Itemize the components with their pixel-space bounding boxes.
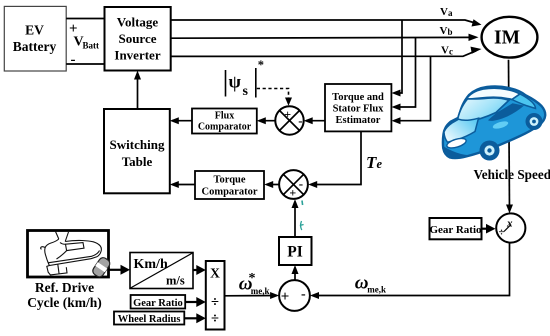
- svg-text:me,k: me,k: [251, 286, 270, 296]
- wire flux comparator to switching table: [170, 117, 192, 124]
- wire switching table to inverter: [134, 71, 141, 110]
- block unit converter Km/h to m/s: [130, 253, 193, 289]
- wire Te estimator to torque summing: [308, 131, 361, 188]
- wire unit converter to product: [193, 265, 206, 275]
- svg-text:s: s: [243, 84, 249, 99]
- wire torque summing to torque comparator: [264, 181, 279, 188]
- block product X divide divide: [206, 261, 225, 330]
- svg-text:Flux: Flux: [215, 111, 234, 122]
- label + VBatt -: [69, 21, 99, 68]
- svg-text:÷: ÷: [499, 227, 505, 239]
- block pedal Ref Drive Cycle: [28, 231, 109, 278]
- block PI: [279, 237, 312, 265]
- svg-text:*: *: [249, 271, 256, 286]
- block Gear Ratio right: [429, 218, 482, 239]
- svg-text:Ref. Drive: Ref. Drive: [35, 280, 94, 295]
- wire feedback omega to speed summing: [310, 243, 510, 299]
- svg-text:Switching: Switching: [110, 137, 165, 152]
- block Flux Comparator: [192, 109, 257, 134]
- wire PI to torque summing: [292, 199, 299, 237]
- wire dashed flux ref to summing: [257, 89, 292, 106]
- label Te: [366, 153, 383, 172]
- label omega feedback: [355, 272, 386, 294]
- wire flux summing to flux comparator: [257, 117, 276, 124]
- wire IM to divider circle: [506, 60, 513, 214]
- svg-text:Gear Ratio: Gear Ratio: [133, 298, 183, 309]
- svg-text:IM: IM: [494, 28, 520, 49]
- svg-text:+: +: [289, 186, 296, 200]
- svg-text:Comparator: Comparator: [198, 122, 252, 133]
- svg-text:Comparator: Comparator: [202, 187, 258, 198]
- svg-text:-: -: [298, 113, 302, 128]
- wire phase Vb: [171, 34, 479, 41]
- block EV Battery: [4, 6, 66, 71]
- wire gear ratio right to divider: [482, 224, 496, 234]
- summing junction speed: [279, 280, 310, 311]
- wire speed summing to PI: [292, 265, 299, 280]
- svg-text:X: X: [210, 266, 220, 281]
- svg-text:Estimator: Estimator: [336, 115, 381, 126]
- divider junction N: [496, 213, 525, 242]
- wire battery-inverter bottom: [66, 63, 104, 65]
- svg-text:Va: Va: [440, 6, 453, 18]
- drawing shoe on pedal: [41, 232, 102, 275]
- svg-text:Stator Flux: Stator Flux: [333, 104, 385, 115]
- motor IM: [482, 17, 538, 58]
- svg-text:m/s: m/s: [166, 274, 185, 288]
- block Switching Table: [104, 109, 170, 193]
- wire battery-inverter top: [66, 18, 104, 20]
- svg-text:Vehicle Speed: Vehicle Speed: [474, 167, 550, 182]
- svg-text:-: -: [299, 176, 303, 191]
- block Gear Ratio left: [131, 295, 186, 309]
- label Ref Drive Cycle: [27, 280, 102, 310]
- label omega ref: [239, 271, 270, 296]
- svg-text:-: -: [301, 287, 306, 302]
- wire tap Vc to estimator: [392, 56, 431, 124]
- svg-text:Gear Ratio: Gear Ratio: [429, 224, 482, 236]
- drawing pedal pad: [91, 256, 111, 279]
- wire phase Vc: [171, 47, 482, 57]
- svg-text:Table: Table: [122, 154, 153, 169]
- svg-text:Wheel Radius: Wheel Radius: [118, 314, 181, 325]
- wire gear ratio to product: [185, 297, 206, 307]
- wire phase Va: [171, 19, 482, 26]
- drawing car: [443, 87, 545, 161]
- svg-text:e: e: [377, 157, 383, 171]
- wire tap Vb to estimator: [392, 38, 416, 111]
- svg-text:PI: PI: [287, 244, 303, 261]
- label Vehicle Speed: [474, 167, 550, 182]
- wire product to speed summing: [225, 292, 280, 299]
- svg-text:Cycle (km/h): Cycle (km/h): [27, 295, 102, 310]
- wire wheel radius to product: [184, 313, 206, 323]
- svg-text:Inverter: Inverter: [114, 48, 160, 63]
- svg-text:+: +: [281, 289, 290, 305]
- svg-text:Torque and: Torque and: [332, 92, 384, 103]
- block Voltage Source Inverter: [105, 7, 171, 71]
- label flux reference psi s star: [226, 58, 265, 99]
- annotation teal mark lower: [300, 221, 304, 230]
- summing junction torque: [279, 170, 308, 199]
- svg-text:Source: Source: [118, 31, 156, 46]
- svg-text:Battery: Battery: [13, 39, 57, 54]
- svg-text:Vb: Vb: [440, 25, 453, 37]
- svg-text:Vc: Vc: [441, 45, 453, 57]
- svg-text:me,k: me,k: [367, 285, 386, 295]
- svg-text:Torque: Torque: [213, 175, 245, 186]
- wire tap Va to estimator: [392, 20, 403, 97]
- label Vb: [440, 25, 453, 37]
- svg-text:EV: EV: [25, 23, 44, 38]
- svg-text:Km/h: Km/h: [134, 257, 168, 272]
- svg-text:+: +: [284, 107, 291, 121]
- block Torque and Stator Flux Estimator: [325, 84, 391, 131]
- wire estimator to flux summing: [304, 117, 325, 124]
- svg-text:-: -: [71, 52, 76, 68]
- svg-text:÷: ÷: [211, 311, 219, 327]
- svg-text:*: *: [258, 58, 264, 72]
- wire pedal to unit converter: [109, 265, 130, 275]
- wire torque comparator to switching table: [170, 181, 195, 188]
- svg-text:Voltage: Voltage: [117, 15, 159, 30]
- label Vc: [441, 45, 453, 57]
- svg-text:T: T: [366, 153, 377, 172]
- annotation teal mark upper: [301, 201, 304, 206]
- block Torque Comparator: [195, 171, 264, 199]
- block Wheel Radius: [114, 312, 184, 326]
- svg-text:÷: ÷: [211, 295, 219, 311]
- svg-text:ψ: ψ: [229, 72, 242, 92]
- label Va: [440, 6, 453, 18]
- summing junction flux: [275, 106, 303, 134]
- svg-text:Batt: Batt: [83, 41, 100, 51]
